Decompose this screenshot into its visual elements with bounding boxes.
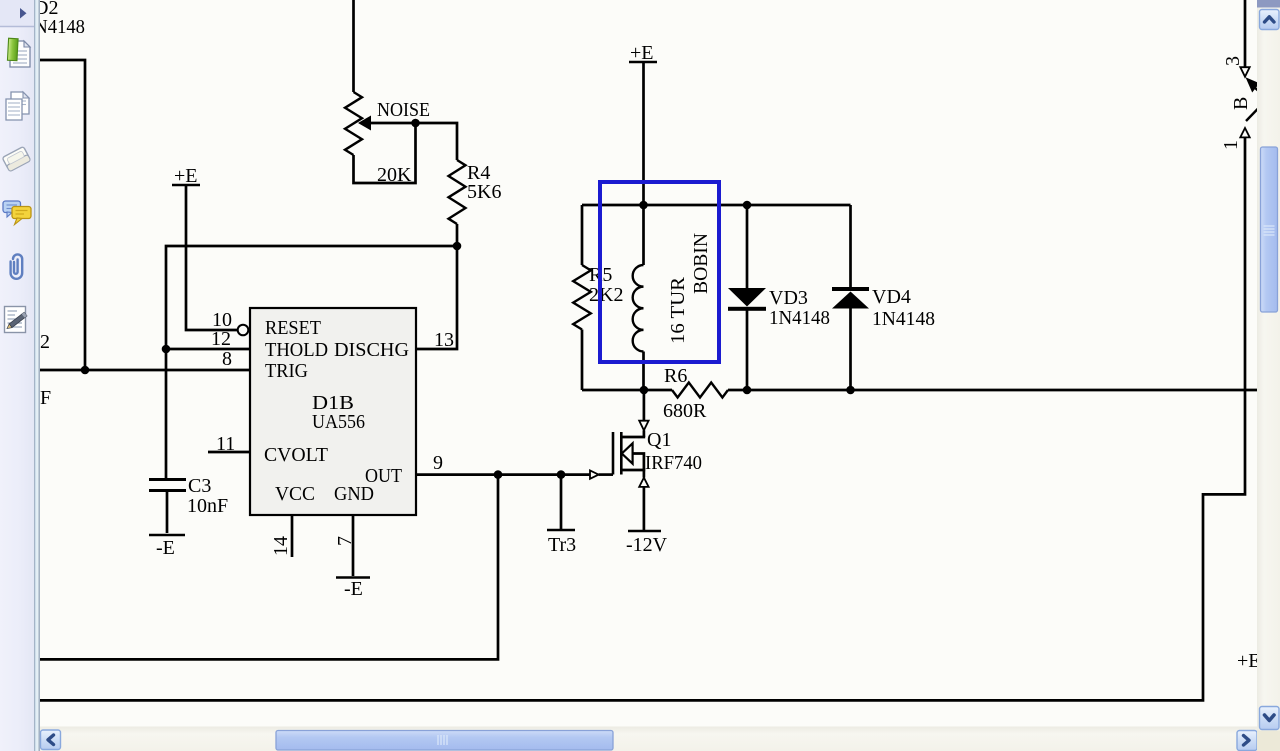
wire R4 bottom bbox=[456, 224, 459, 246]
toolbar right border bbox=[34, 0, 40, 751]
svg-text:CVOLT: CVOLT bbox=[264, 444, 328, 466]
notes icon (speech bubbles) bbox=[3, 201, 31, 225]
svg-text:11: 11 bbox=[216, 433, 235, 455]
wire +E center drop to rail bbox=[642, 62, 645, 205]
wire bottom rail right of R6 bbox=[728, 389, 1257, 392]
wire Tr3 drop bbox=[560, 475, 563, 529]
wire pot top lead bbox=[352, 0, 355, 92]
wire THOLD pin12 bbox=[166, 348, 252, 351]
new-sheet icon (green document) bbox=[7, 38, 30, 67]
svg-text:14: 14 bbox=[270, 536, 292, 556]
wire R5 bottom lead bbox=[581, 330, 584, 391]
power +E top-left bar bbox=[172, 184, 200, 187]
drain arrow marker bbox=[639, 421, 648, 431]
wire corner net: horizontal y246 and vertical to C3 bbox=[166, 246, 457, 479]
wire OUT pin9 net bbox=[416, 473, 590, 476]
wire +E left drop to pin10 bbox=[186, 184, 238, 330]
wire source lower lead to -12V bbox=[643, 487, 646, 530]
source arrow marker bbox=[639, 478, 648, 487]
wire coil top lead bbox=[642, 205, 645, 265]
svg-text:16 TUR: 16 TUR bbox=[667, 276, 689, 344]
bottom-right corner bbox=[1257, 731, 1280, 751]
vertical thumb bbox=[1261, 147, 1278, 312]
svg-text:VD4: VD4 bbox=[872, 286, 911, 308]
svg-text:1N4148: 1N4148 bbox=[769, 307, 830, 329]
wire pin13 to R4 net bbox=[416, 246, 457, 349]
svg-text:+E: +E bbox=[174, 165, 198, 187]
svg-text:1N4148: 1N4148 bbox=[872, 308, 935, 330]
gate arrow marker bbox=[590, 470, 599, 478]
wire bottom rail left of R6 bbox=[582, 389, 672, 392]
svg-text:7: 7 bbox=[334, 536, 356, 546]
transistor Q1 IRF740 bbox=[613, 432, 645, 475]
wire gate lead after arrow bbox=[599, 473, 613, 476]
switch B lever filled arrow bbox=[1246, 77, 1260, 92]
wire R5 top lead bbox=[581, 205, 584, 265]
svg-text:RESET: RESET bbox=[265, 317, 321, 339]
svg-text:12: 12 bbox=[211, 328, 231, 350]
svg-text:10nF: 10nF bbox=[187, 495, 228, 517]
vertical scrollbar track bbox=[1257, 0, 1280, 751]
resistor R6 680R bbox=[672, 383, 728, 398]
svg-text:-12V: -12V bbox=[626, 534, 668, 556]
toolbar top section bbox=[0, 0, 34, 26]
wire top-left horizontal from edge to corner bbox=[40, 60, 85, 370]
eraser icon bbox=[2, 146, 31, 171]
edit-note icon (page with pencil) bbox=[5, 307, 27, 333]
resistor R5 2K2 bbox=[573, 265, 591, 330]
svg-text:GND: GND bbox=[334, 483, 374, 505]
svg-text:3: 3 bbox=[1222, 56, 1244, 66]
toolbar separator bbox=[0, 26, 34, 28]
horizontal left button bbox=[41, 730, 61, 750]
wire OUT down-branch to bottom bus bbox=[40, 475, 498, 660]
power +E center bar bbox=[629, 61, 657, 64]
diode VD4 1N4148 bbox=[832, 287, 869, 309]
inductor L BOBIN 16 TUR bbox=[633, 265, 644, 352]
svg-text:-E: -E bbox=[156, 537, 175, 559]
capacitor C3 10nF bbox=[149, 480, 186, 491]
switch B lower lever bbox=[1246, 107, 1260, 122]
svg-text:13: 13 bbox=[434, 329, 454, 351]
wire VD4 corner drop bbox=[849, 205, 852, 287]
svg-text:1: 1 bbox=[1220, 140, 1242, 150]
svg-text:IRF740: IRF740 bbox=[645, 452, 702, 474]
wire pin14 stub bbox=[291, 515, 294, 557]
potentiometer NOISE 20K body bbox=[345, 92, 362, 155]
svg-text:NOISE: NOISE bbox=[377, 99, 430, 121]
svg-text:R6: R6 bbox=[664, 365, 687, 387]
switch B contact 1 open arrow bbox=[1240, 128, 1249, 137]
svg-text:C3: C3 bbox=[188, 475, 211, 497]
wire bottom return bus bbox=[40, 137, 1245, 701]
wire pin7 GND lead bbox=[352, 515, 355, 576]
wire coil bottom lead bbox=[642, 352, 645, 391]
svg-text:8: 8 bbox=[222, 348, 232, 370]
wire C3 bottom lead bbox=[166, 491, 169, 534]
svg-text:THOLD: THOLD bbox=[265, 339, 328, 361]
switch B contact 3 open arrow bbox=[1240, 67, 1249, 77]
IC U1 D1B UA556 body bbox=[250, 308, 416, 515]
expand arrow icon bbox=[20, 8, 27, 19]
attachment icon (paperclip) bbox=[11, 254, 23, 278]
diode VD3 1N4148 bbox=[728, 288, 766, 311]
svg-text:VCC: VCC bbox=[275, 483, 315, 505]
power -E under C3 bar bbox=[149, 534, 185, 537]
selection box around inductor bbox=[600, 182, 719, 362]
svg-text:B: B bbox=[1230, 97, 1252, 110]
svg-text:-E: -E bbox=[344, 578, 363, 600]
wire source upper lead bbox=[643, 470, 646, 478]
svg-text:UA556: UA556 bbox=[312, 411, 365, 433]
power -E under pin7 bar bbox=[336, 576, 370, 579]
vertical down button bbox=[1260, 707, 1280, 730]
svg-text:BOBIN: BOBIN bbox=[690, 233, 712, 294]
svg-text:+E: +E bbox=[630, 42, 654, 64]
wire VD3 top lead bbox=[746, 205, 749, 289]
svg-text:TRIG: TRIG bbox=[265, 360, 308, 382]
wire pin11 stub bbox=[208, 451, 250, 454]
wire VD4 bottom lead bbox=[849, 308, 852, 391]
switch B lever stub bbox=[1254, 87, 1263, 95]
svg-text:Q1: Q1 bbox=[647, 429, 671, 451]
pin 10 inverting bubble bbox=[238, 325, 249, 336]
horizontal scrollbar track bbox=[40, 727, 1257, 751]
wire pot bottom loop bbox=[354, 123, 416, 183]
wire TRIG net horizontal bbox=[40, 369, 252, 372]
power -12V bar bbox=[628, 530, 661, 533]
toolbar bbox=[0, 0, 42, 751]
svg-text:9: 9 bbox=[433, 452, 443, 474]
wire drain upper lead bbox=[643, 390, 646, 421]
svg-text:2K2: 2K2 bbox=[589, 284, 623, 306]
svg-text:DISCHG: DISCHG bbox=[334, 339, 409, 361]
wire switch top lead bbox=[1244, 0, 1247, 67]
top window fragment bar bbox=[1257, 0, 1280, 8]
horizontal thumb bbox=[276, 731, 613, 751]
wire R4 top to wiper bbox=[371, 123, 457, 160]
copy-sheet icon (two documents) bbox=[6, 92, 29, 120]
svg-text:20K: 20K bbox=[377, 164, 412, 186]
svg-text:VD3: VD3 bbox=[769, 287, 808, 309]
svg-text:680R: 680R bbox=[663, 400, 707, 422]
svg-text:Tr3: Tr3 bbox=[548, 534, 576, 556]
wire drain lower lead bbox=[643, 430, 646, 437]
terminal Tr3 bar bbox=[547, 529, 575, 532]
svg-text:5K6: 5K6 bbox=[467, 181, 501, 203]
toolbar background bbox=[0, 0, 34, 751]
potentiometer wiper arrow bbox=[358, 116, 371, 131]
horizontal right button bbox=[1237, 731, 1257, 751]
resistor R4 5K6 bbox=[449, 160, 466, 224]
svg-text:+E: +E bbox=[1237, 650, 1261, 672]
vertical up button bbox=[1260, 10, 1280, 30]
wire top rail of snubber group bbox=[582, 204, 851, 207]
wire VD3 bottom lead bbox=[746, 310, 749, 390]
